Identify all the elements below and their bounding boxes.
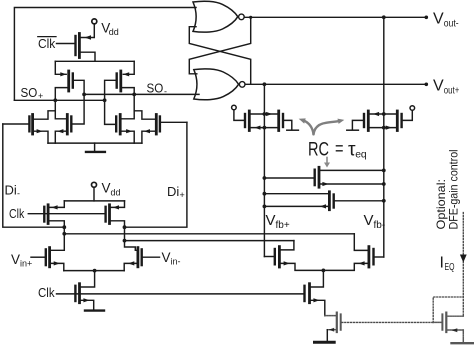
wire: cross-couple U2 output up to U1 input <box>189 27 250 85</box>
transistor M16 DFE mirror NMOS (dotted, optional) <box>325 313 433 332</box>
junction Di+ to long wire <box>123 239 127 243</box>
svg-text:out-: out- <box>444 18 459 30</box>
junction input tail node <box>93 269 97 273</box>
annotation: gray curly double arrow for RC <box>305 121 341 135</box>
transistor pair: left RC equalizer pass gate <box>234 110 299 131</box>
wire: feedback tail down to M11 drain <box>311 270 324 287</box>
label Vin+ <box>11 252 32 269</box>
junction left RC top rail <box>263 112 267 116</box>
junction right RC bottom rail <box>382 126 386 130</box>
terminal Vout+ <box>425 83 429 87</box>
label IEQ <box>440 255 455 274</box>
label Vfb- <box>364 212 386 231</box>
wire: Vdd stem to precharge rail <box>93 187 95 201</box>
label Vdd (input stage) <box>102 181 121 198</box>
svg-text:V: V <box>266 212 276 229</box>
wire: node SO+ rail <box>14 99 104 101</box>
svg-text:SO: SO <box>21 85 38 100</box>
wire: Di- long wire to M15 drain <box>64 233 354 235</box>
junction at U1 output cross tap <box>249 16 252 19</box>
gate U2 NOR (bottom, SR latch) <box>194 69 245 100</box>
annotation: gray small down arrow from RC label <box>326 158 328 164</box>
label SO+ <box>21 85 44 101</box>
label Vfb+ <box>266 212 290 231</box>
svg-text:Di: Di <box>5 183 17 198</box>
junction on SO- at M3 drain <box>132 93 136 97</box>
gate U1 NOR (top, SR latch) <box>193 1 244 32</box>
label Vout+ <box>433 78 459 97</box>
label Di+ <box>167 184 185 200</box>
terminal: left RC control input <box>232 105 237 110</box>
svg-text:DFE-gain control: DFE-gain control <box>447 150 461 230</box>
transistor M12 input NMOS (Vin+) <box>31 248 64 271</box>
wire: SO- branch to M6 drain <box>122 111 134 119</box>
wire: SO+ routing from latch around top border to top NOR input <box>14 8 196 101</box>
svg-text:V: V <box>364 212 374 229</box>
svg-text:=: = <box>335 138 344 160</box>
transistor M7 pass NMOS right (gate Di+) <box>142 115 187 144</box>
svg-text:dd: dd <box>111 188 121 198</box>
ground (latch core) <box>86 143 105 152</box>
capacitor MC2 MOS cap lower (Vfb- to Vfb+) <box>264 192 383 210</box>
svg-text:out+: out+ <box>444 85 460 97</box>
wire: cross-couple U1 output down to U2 input <box>189 17 250 74</box>
svg-text:V: V <box>433 11 444 28</box>
wire: U2 output to Vout+ <box>245 83 426 85</box>
transistor M14 feedback diff pair left (gate Vfb+) <box>264 241 323 271</box>
label RC = tau_eq <box>308 138 367 161</box>
label Optional: DFE-gain control (rotated) <box>434 150 461 230</box>
transistor M4 pass NMOS left (gate Di-) <box>3 115 48 144</box>
wire: U1 output to Vout- <box>244 16 426 18</box>
junction MC2 bottom on Vfb+ rail <box>263 205 267 209</box>
svg-text:-: - <box>164 87 167 97</box>
svg-text:-: - <box>17 189 20 199</box>
wire: dotted IEQ feed line <box>462 213 464 317</box>
svg-text:V: V <box>433 78 444 95</box>
wire: precharge PMOS source rail <box>64 200 124 202</box>
transistor M17 DFE reference NMOS (dotted, diode connected) <box>433 313 463 342</box>
svg-text:in-: in- <box>171 257 181 267</box>
junction Vout+ to left RC branch <box>263 82 267 86</box>
transistor M1 clock PMOS precharge switch (Clkbar) <box>57 24 96 62</box>
label Di- <box>5 183 21 199</box>
junction MC2 gate on Vfb- rail <box>382 199 386 203</box>
junction Vout- to right RC branch <box>382 15 386 19</box>
svg-text:I: I <box>440 255 444 272</box>
transistor M5 cross-coupled NMOS left <box>55 94 84 143</box>
wire: node SO- rail <box>84 93 199 95</box>
junction Di- drain/loop <box>62 225 66 229</box>
wire: M16 source to ground <box>326 330 328 342</box>
wire: latch PMOS source rail <box>55 60 134 62</box>
transistor pair: right RC equalizer pass gate <box>347 110 413 130</box>
arrow on M16 source (dotted style) <box>329 328 335 332</box>
terminal Vout- <box>425 15 429 19</box>
wire: input pair tail rail <box>64 270 124 272</box>
svg-text:fb-: fb- <box>374 220 386 231</box>
transistor M6 cross-coupled NMOS right <box>105 100 135 143</box>
wire: SO+ down to latch NMOS drains <box>34 100 55 119</box>
svg-text:V: V <box>162 250 171 265</box>
terminal Vdd (top) <box>92 19 97 24</box>
junction left RC bottom rail <box>263 126 267 130</box>
wire: Di- from M8 drain to pass gate M4 (left loop) <box>3 124 65 227</box>
junction on SO+ at M3 gate <box>103 98 107 102</box>
svg-text:Di: Di <box>167 184 179 199</box>
svg-text:fb+: fb+ <box>276 220 290 231</box>
svg-text:Clk: Clk <box>38 285 55 300</box>
svg-text:Clk: Clk <box>38 36 56 51</box>
svg-text:in+: in+ <box>20 259 32 269</box>
label SO- <box>147 80 168 96</box>
svg-text:SO: SO <box>147 80 164 95</box>
transistor M15 feedback diff pair right (gate Vfb-) <box>323 234 383 271</box>
terminal Vdd (input stage) <box>92 182 97 187</box>
label Vdd (top) <box>101 21 119 37</box>
label Clkbar with overline <box>38 36 56 51</box>
junction on SO- at M2 gate <box>82 93 86 97</box>
transistor M10 input tail NMOS (gate Clk) <box>75 284 93 310</box>
svg-text:RC: RC <box>308 139 329 161</box>
label Clk (input precharge) <box>9 206 25 221</box>
junction MC1 top on Vfb- rail <box>382 169 386 173</box>
svg-text:+: + <box>38 91 43 101</box>
label Vin- <box>162 250 181 267</box>
ground (DFE mirror left) <box>315 341 335 344</box>
junction on SO+ at M2 drain <box>53 98 57 102</box>
transistor M8 precharge PMOS left (node Di-) <box>44 201 64 250</box>
svg-text:V: V <box>11 252 20 267</box>
wire: latch common source rail <box>48 142 142 144</box>
ground (input tail) <box>85 309 104 311</box>
svg-text:dd: dd <box>109 27 119 37</box>
ground (DFE mirror right, dotted) <box>452 342 474 344</box>
junction Di- to long wire <box>62 232 66 236</box>
svg-text:EQ: EQ <box>445 262 455 273</box>
svg-text:eq: eq <box>355 149 367 161</box>
capacitor MC1 MOS cap upper (Vfb+ to Vfb-) <box>264 167 383 187</box>
label Vout- <box>433 11 459 30</box>
terminal: right RC control input <box>410 106 415 111</box>
wire: long Clk line to both tail gates <box>57 293 304 295</box>
wire: dotted gate-drain diode connection of M17 <box>433 297 463 322</box>
label Clk (bottom) <box>38 285 55 300</box>
wire: SO- down to latch NMOS drains <box>134 94 155 119</box>
wire: Vout- node down through right RC gate to Vfb- rail <box>383 17 385 257</box>
transistor M9 precharge PMOS right (node Di+) <box>106 201 138 250</box>
svg-text:+: + <box>180 190 185 200</box>
wire: Clk to precharge gates <box>28 213 105 215</box>
wire: Di+ from M9 drain to pass gate M7 <box>125 122 187 227</box>
transistor M11 feedback tail NMOS (gate Clk) <box>305 284 325 316</box>
junction feedback pair tail node <box>322 269 326 273</box>
junction MC2 top on Vfb+ rail <box>263 192 267 196</box>
transistor M3 cross-coupled PMOS right <box>105 61 135 100</box>
transistor M13 input NMOS (Vin-) <box>124 248 159 271</box>
transistor M2 cross-coupled PMOS left <box>55 61 84 100</box>
junction MC1 bottom on Vfb- rail <box>382 182 386 186</box>
junction Di+ drain/loop <box>123 225 127 229</box>
svg-text:V: V <box>102 181 111 196</box>
wire: Di+ long wire to M14 drain <box>125 240 294 242</box>
svg-text:Clk: Clk <box>9 206 25 221</box>
arrow on M17 source (dotted style) <box>452 328 458 332</box>
wire: Vout+ node down through left RC gate to Vfb+ rail <box>263 84 265 256</box>
wire: tail node down to M10 drain <box>81 271 95 287</box>
arrow: IEQ current direction <box>460 255 467 263</box>
junction MC1 gate on Vfb+ rail <box>263 176 267 180</box>
wire: SO+ branch to M5 drain <box>55 111 66 119</box>
junction right RC top rail <box>382 112 386 116</box>
